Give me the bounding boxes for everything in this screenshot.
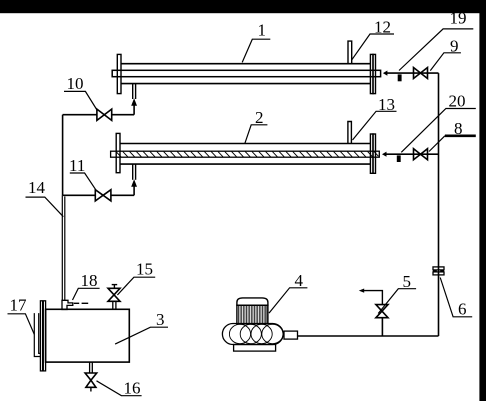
tube exchanger 1 shell <box>121 64 371 84</box>
label 15 leader <box>117 277 155 295</box>
svg-text:9: 9 <box>450 37 459 56</box>
tube 2 left flange <box>116 133 120 172</box>
label 16 leader <box>97 381 142 396</box>
union 6 on riser <box>433 267 444 275</box>
label 18 leader <box>73 288 100 300</box>
svg-text:10: 10 <box>67 74 84 93</box>
tank left flange plates <box>40 301 45 371</box>
label 10 leader <box>64 91 97 110</box>
label 8 underline (thick) <box>445 135 476 138</box>
label 13 leader <box>353 111 397 140</box>
arrow vent outlet left <box>359 289 364 293</box>
label 5 leader <box>378 289 416 314</box>
wire valve 5 branch riser <box>381 318 383 336</box>
pump 4 motor cap <box>237 298 268 305</box>
tube 2 bottom port pipe <box>133 164 136 180</box>
valve 10 <box>97 109 112 120</box>
wire valve 11 to tube 2 port <box>111 194 134 196</box>
label 8 leader <box>429 136 445 152</box>
wire left vertical line <box>62 115 64 196</box>
valve 16 <box>85 373 97 387</box>
svg-text:2: 2 <box>255 108 264 127</box>
port 20 (black plug) <box>397 155 401 162</box>
svg-text:16: 16 <box>124 379 141 398</box>
wire valve 10 to tube 1 port <box>112 114 134 116</box>
wire right vertical main line <box>438 73 440 336</box>
svg-text:20: 20 <box>449 92 466 111</box>
nozzle 17 (side tube) <box>34 313 40 356</box>
svg-text:15: 15 <box>136 260 153 279</box>
label 14 leader <box>26 197 64 217</box>
pump 4 body <box>222 324 283 345</box>
tube 1 inner tube <box>112 70 380 76</box>
svg-text:14: 14 <box>28 178 46 197</box>
wire port pipe to valve 11 line <box>133 185 135 195</box>
label 17 leader <box>8 314 35 335</box>
valve 11 <box>95 190 111 201</box>
label 1 leader <box>242 39 270 62</box>
pipe 12 <box>348 41 352 64</box>
valve 15 stem <box>112 285 118 289</box>
tank 3 body <box>46 309 130 362</box>
border frame bottom bar <box>34 41 444 391</box>
wire tube 1 inlet line <box>387 72 439 74</box>
pump 4 outlet <box>284 331 298 339</box>
label 6 leader <box>440 278 472 317</box>
label 2 leader <box>245 125 268 144</box>
valve 16 drain tick <box>90 387 92 391</box>
svg-text:18: 18 <box>81 271 98 290</box>
label 9 leader <box>430 53 461 71</box>
valve 9 <box>414 68 428 79</box>
svg-text:13: 13 <box>378 95 395 114</box>
label 11 leader <box>70 173 97 191</box>
label 19 leader <box>399 29 473 71</box>
svg-text:3: 3 <box>156 310 165 329</box>
port 19 (black plug) <box>398 74 402 81</box>
border frame top bar <box>0 0 486 13</box>
svg-text:8: 8 <box>454 119 463 138</box>
pump 4 motor fins <box>237 305 268 324</box>
wire pump discharge line <box>298 335 439 337</box>
label 4 leader <box>269 288 307 313</box>
svg-text:11: 11 <box>69 156 85 175</box>
arrow up into tube 2 port <box>131 179 137 187</box>
tube 2 hatching <box>116 152 378 158</box>
svg-text:4: 4 <box>295 271 304 290</box>
border frame right bar <box>479 0 486 401</box>
arrow left into tube 2 right stub <box>382 152 387 157</box>
pump 4 base <box>234 345 276 352</box>
tube 1 right flange pair <box>370 54 375 93</box>
svg-text:5: 5 <box>403 272 412 291</box>
valve 15 <box>108 288 120 301</box>
pump 4 body lobes <box>229 324 283 343</box>
wire valve 10 feed line <box>63 114 97 116</box>
wire port pipe to valve 10 line <box>133 105 135 115</box>
valve 15 stub to tank <box>113 301 116 309</box>
dashed level line at fitting 18 <box>74 302 88 304</box>
tank drain stub <box>90 362 93 373</box>
arrow up into tube 1 port <box>131 98 137 106</box>
pipe 13 <box>348 122 352 144</box>
tube 1 bottom port pipe <box>133 84 136 99</box>
label 12 leader <box>352 34 394 60</box>
svg-text:6: 6 <box>458 300 467 319</box>
valve 5 vent stem <box>361 291 382 305</box>
tube 2 inner hatched tube <box>111 151 380 157</box>
tube 1 left flange <box>117 54 121 93</box>
fitting 18 elbow <box>62 300 73 309</box>
arrow left into tube 1 right stub <box>383 71 388 76</box>
svg-text:17: 17 <box>10 296 28 315</box>
label 20 leader <box>401 109 476 153</box>
valve 8 <box>414 149 428 160</box>
svg-text:1: 1 <box>258 21 267 40</box>
wire valve 11 feed line <box>63 194 96 196</box>
valve 5 <box>376 305 388 318</box>
tube 2 right flange pair <box>370 134 375 173</box>
tube exchanger 2 shell <box>120 144 371 165</box>
wire tube 2 inlet line <box>386 153 439 155</box>
svg-text:12: 12 <box>374 18 391 37</box>
label 3 leader <box>115 327 168 344</box>
svg-text:19: 19 <box>450 9 467 28</box>
pipe 14 (double line down to tank) <box>62 195 65 300</box>
